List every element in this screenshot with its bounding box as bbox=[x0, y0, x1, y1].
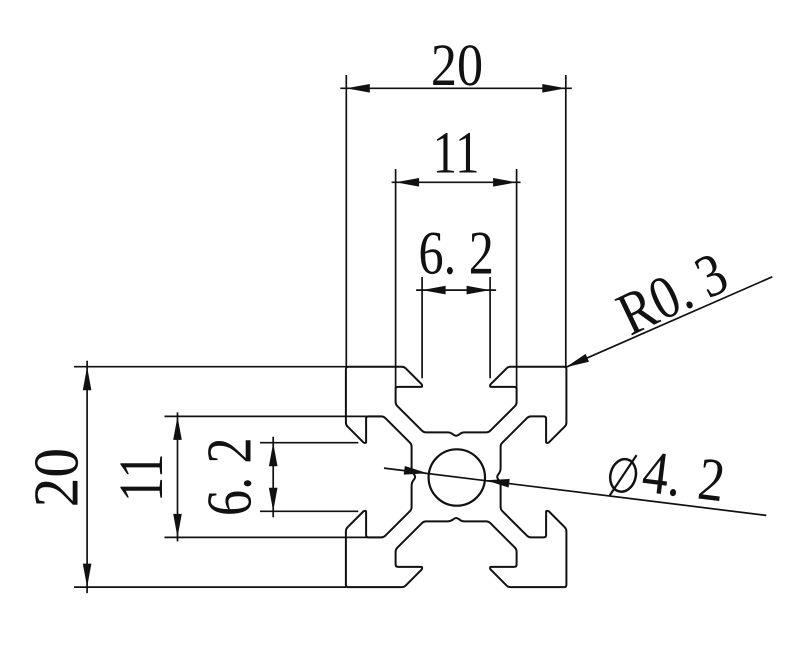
dim 6.2 left: top arrowhead bbox=[269, 443, 278, 467]
dim 11 top: dimension line bbox=[392, 181, 521, 183]
svg-text:6. 2: 6. 2 bbox=[194, 437, 265, 516]
extrusion profile outline bbox=[346, 367, 567, 587]
svg-text:20: 20 bbox=[20, 448, 91, 508]
dim 20 top: left arrowhead bbox=[346, 84, 370, 93]
leader dia4.2: left arrowhead bbox=[404, 466, 428, 475]
dim 6.2 top: dimension line bbox=[416, 289, 496, 291]
svg-text:11: 11 bbox=[433, 119, 480, 185]
center hole circle bbox=[429, 449, 485, 505]
leader dia4.2: right arrowhead bbox=[486, 479, 510, 488]
leader R0.3: arrowhead bbox=[566, 354, 589, 367]
dim 6.2 top: right arrowhead bbox=[467, 286, 491, 295]
dim 6.2 left: extension lines bbox=[260, 442, 358, 444]
dim 6.2 top: extension lines bbox=[421, 277, 423, 378]
dim 11 left: top arrowhead bbox=[173, 416, 182, 440]
dim 20 left: bottom arrowhead bbox=[83, 564, 92, 588]
svg-text:4. 2: 4. 2 bbox=[639, 439, 729, 516]
dim 11 left: dimension line bbox=[177, 412, 179, 541]
svg-text:R0. 3: R0. 3 bbox=[607, 240, 737, 349]
leader dia4.2: phi symbol bbox=[607, 455, 640, 495]
dim 6.2 left: dimension line bbox=[272, 437, 274, 518]
dim 6.2 top: left arrowhead bbox=[422, 286, 446, 295]
dim 20 left: dimension line bbox=[86, 361, 88, 593]
dim 20 top: extension lines bbox=[345, 75, 347, 367]
dim 20 left: extension lines bbox=[74, 366, 346, 368]
dim 20 top: right arrowhead bbox=[542, 84, 566, 93]
dim 11 left: bottom arrowhead bbox=[173, 514, 182, 538]
svg-text:6. 2: 6. 2 bbox=[419, 219, 494, 287]
leader R0.3: line bbox=[566, 277, 773, 368]
dim 11 top: left arrowhead bbox=[396, 178, 420, 187]
svg-text:11: 11 bbox=[106, 453, 176, 502]
dim 6.2 left: bottom arrowhead bbox=[269, 488, 278, 512]
dim 11 top: right arrowhead bbox=[493, 178, 516, 187]
dim 11 top: extension lines bbox=[395, 169, 397, 388]
dim 20 left: top arrowhead bbox=[83, 367, 92, 391]
svg-text:20: 20 bbox=[431, 32, 483, 98]
dim 20 top: dimension line bbox=[340, 87, 572, 89]
dim 11 left: extension lines bbox=[165, 415, 383, 417]
leader dia4.2: line bbox=[384, 468, 766, 515]
